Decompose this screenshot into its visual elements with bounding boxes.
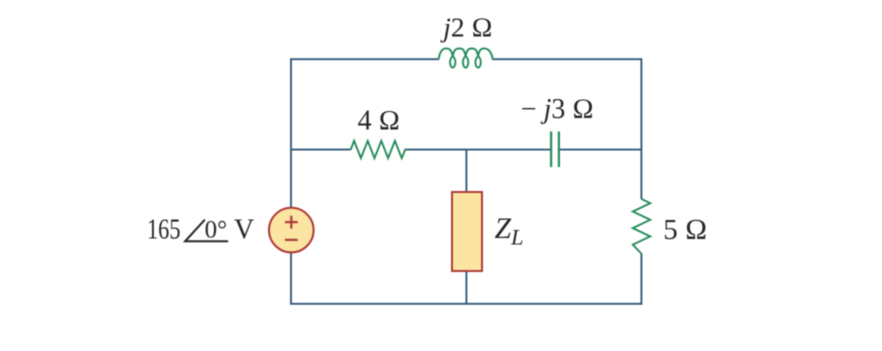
wire middle horizontal left segment (to 4 ohm resistor) [291, 149, 351, 151]
svg-text:165: 165 [147, 215, 181, 246]
wire left vertical upper segment [290, 58, 292, 208]
wire middle horizontal right segment (capacitor to right branch) [559, 149, 641, 151]
wire middle vertical lower segment (ZL to bottom) [465, 271, 467, 304]
wire middle vertical upper segment (junction to ZL) [465, 150, 467, 192]
svg-text:0°: 0° [205, 216, 228, 243]
voltage source minus sign [285, 239, 298, 241]
resistor R2 (5 ohm) vertical zigzag [633, 199, 650, 254]
resistor R1 (4 ohm) zigzag [351, 141, 407, 158]
svg-text:4 Ω: 4 Ω [358, 106, 401, 137]
wire top-right horizontal segment [493, 58, 642, 60]
wire left vertical lower segment [290, 252, 292, 303]
voltage source plus sign [285, 216, 298, 229]
source value label 165 angle 0 deg V [147, 214, 254, 245]
wire top-left horizontal segment [291, 58, 439, 60]
wire bottom horizontal segment [290, 303, 642, 305]
wire right vertical upper segment [640, 58, 642, 199]
svg-text:− j3 Ω: − j3 Ω [521, 94, 594, 125]
voltage source V1 circle [269, 208, 314, 253]
angle symbol (phasor angle) [185, 220, 228, 242]
wire middle horizontal center segment (resistor to capacitor) [406, 149, 551, 151]
svg-text:ZL: ZL [495, 213, 524, 249]
inductor L1 (j2 ohm) coil [439, 48, 493, 67]
svg-text:j2 Ω: j2 Ω [440, 12, 492, 43]
load impedance ZL box [452, 192, 482, 271]
capacitor C1 (-j3 ohm) left plate [550, 132, 552, 168]
capacitor C1 (-j3 ohm) right plate [558, 132, 560, 168]
svg-text:V: V [234, 214, 254, 245]
svg-text:5 Ω: 5 Ω [663, 214, 707, 246]
wire right vertical lower segment [640, 254, 642, 305]
